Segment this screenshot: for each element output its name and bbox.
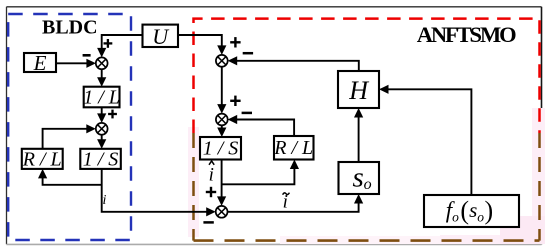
- sign - at X1: [83, 54, 91, 57]
- block 1/S left: [80, 148, 121, 170]
- summing junction X2: [96, 123, 108, 135]
- svg-text:BLDC: BLDC: [42, 17, 98, 39]
- wire H output to sum X3: [228, 56, 359, 71]
- wire f_o(s_o) output to H: [379, 85, 471, 195]
- summing junction X5: [216, 206, 228, 218]
- svg-text:ANFTSMO: ANFTSMO: [417, 22, 516, 47]
- pink jpeg halo strips: [188, 108, 545, 244]
- summing junction X3: [216, 55, 228, 67]
- svg-text:i: i: [103, 193, 107, 208]
- svg-text:R / L: R / L: [273, 137, 313, 159]
- ANFTSMO dashed boundary lower part (brown): [194, 133, 540, 241]
- block 1/L: [83, 87, 120, 109]
- summing junction X4: [216, 114, 228, 126]
- block R/L left: [22, 148, 63, 170]
- wire s_o to H: [354, 108, 363, 162]
- svg-text:U: U: [152, 24, 170, 49]
- summing junction X1: [96, 57, 108, 69]
- sign - at X5: [203, 221, 213, 224]
- block f_o(s_o): [424, 195, 519, 227]
- wire R/L left output to sum X2: [43, 124, 96, 149]
- svg-text:R / L: R / L: [22, 148, 62, 170]
- wire 1/S output i down and right to sum X5: [102, 169, 216, 217]
- wire E to sum X1: [56, 59, 96, 68]
- sign - at X3: [243, 52, 253, 55]
- block E: [24, 51, 56, 75]
- svg-text:E: E: [33, 51, 47, 75]
- sign + at X3: [230, 37, 240, 47]
- ANFTSMO dashed boundary upper part (red): [194, 19, 540, 133]
- svg-text:i: i: [209, 165, 214, 186]
- sign + at X2: [108, 110, 117, 119]
- wire U trunk with branches down to X1 and X3: [97, 34, 226, 57]
- svg-text:s: s: [353, 162, 364, 194]
- block H: [338, 71, 379, 108]
- sign + at X1: [104, 39, 113, 48]
- wire 1/L to sum X2: [97, 107, 106, 123]
- svg-text:o: o: [364, 176, 372, 193]
- svg-text:1 / S: 1 / S: [83, 148, 119, 170]
- node label i-tilde: [283, 192, 290, 213]
- svg-text:H: H: [348, 76, 369, 105]
- wire X1 to 1/L: [97, 69, 106, 87]
- wire R/L mid output to sum X4: [228, 115, 294, 136]
- wire i-hat branch to R/L mid box: [222, 160, 299, 185]
- wire feedback i to R/L left box: [38, 169, 102, 185]
- sign - at X4: [242, 112, 252, 115]
- block s_o: [339, 162, 380, 195]
- svg-text:1 / L: 1 / L: [83, 87, 120, 109]
- sign + at X5: [206, 187, 216, 197]
- wire X5 output i-tilde to s_o: [228, 194, 364, 212]
- wire X2 to 1/S left: [97, 135, 106, 149]
- node label i-hat: [209, 161, 215, 186]
- wire X4 to 1/S mid: [217, 125, 226, 137]
- wire 1/S mid output i-hat down to sum X5: [217, 160, 226, 206]
- block R/L mid: [273, 136, 313, 160]
- block U: [143, 24, 179, 49]
- block 1/S mid: [200, 137, 241, 160]
- BLDC dashed boundary box (blue): [8, 14, 131, 240]
- wire X3 to X4: [217, 67, 226, 114]
- sign + at X4: [230, 96, 240, 106]
- svg-text:1 / S: 1 / S: [203, 138, 239, 160]
